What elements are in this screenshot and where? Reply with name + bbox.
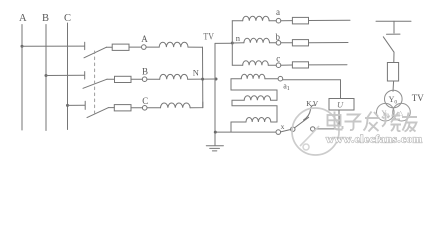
fuse FU-A bbox=[112, 44, 129, 50]
inductor primary winding B bbox=[160, 74, 188, 79]
wire terminal x to selector bbox=[281, 130, 291, 132]
wire A blade to fuse bbox=[107, 46, 113, 48]
node junction C bbox=[66, 104, 69, 107]
switch QS-C fixed contact bbox=[84, 101, 86, 109]
watermark logo circle bbox=[292, 108, 339, 155]
fuse FU-B bbox=[115, 76, 132, 82]
switch gang linkage dashed bbox=[94, 51, 96, 117]
inductor primary winding A bbox=[159, 42, 188, 47]
switch QS-B fixed contact bbox=[84, 72, 86, 79]
svg-text:x: x bbox=[281, 122, 285, 131]
watermark bbox=[292, 108, 422, 155]
inductor auxiliary winding 2 bbox=[244, 96, 270, 101]
wire aux1 to terminal a1 bbox=[265, 78, 278, 80]
svg-text:c: c bbox=[276, 53, 280, 63]
wire coil c to terminal bbox=[268, 64, 276, 66]
node N junction bbox=[201, 78, 204, 81]
terminal a bbox=[276, 18, 281, 23]
switch QS-B blade bbox=[83, 79, 107, 88]
wire aux3 left down to bottom rail bbox=[231, 122, 246, 132]
wire coil C to bus1 bbox=[190, 102, 203, 108]
wire aux1 left wrap bbox=[231, 79, 277, 101]
wire fuse C to plug bbox=[131, 107, 143, 109]
wire terminal a to fuse bbox=[281, 20, 293, 22]
wire bus1 vertical bbox=[202, 47, 204, 107]
wire plug B to coil bbox=[147, 78, 160, 80]
fuse FU-c bbox=[292, 62, 308, 68]
wire terminal b to fuse bbox=[281, 42, 293, 44]
svg-text:n: n bbox=[236, 33, 241, 43]
wire coil b to terminal bbox=[270, 42, 277, 44]
svg-text:www.elecfans.com: www.elecfans.com bbox=[326, 133, 422, 145]
wire row A branch bbox=[22, 45, 85, 47]
selector blade bbox=[295, 117, 309, 127]
watermark char shao bbox=[382, 112, 401, 131]
wire row a out bbox=[309, 19, 351, 21]
inductor secondary winding b bbox=[244, 38, 270, 43]
inductor primary winding C bbox=[161, 103, 191, 108]
wire B blade to fuse bbox=[107, 78, 115, 80]
svg-text:U: U bbox=[337, 100, 344, 110]
svg-text:a: a bbox=[276, 7, 280, 17]
wire aux2 ends bbox=[271, 99, 277, 101]
node junction A bbox=[21, 45, 24, 48]
wire blade to fuse bbox=[393, 52, 395, 62]
wire aux2 left wrap bbox=[232, 100, 277, 122]
wire bottom rail to terminal x bbox=[215, 131, 276, 133]
wire row C branch bbox=[68, 104, 86, 106]
fuse FU-b bbox=[292, 40, 308, 46]
wire fuse B to plug bbox=[131, 78, 142, 80]
watermark char zi bbox=[345, 115, 362, 131]
wire secondary star bus bbox=[231, 21, 233, 65]
wire row B branch bbox=[46, 74, 85, 76]
svg-text:TV: TV bbox=[203, 32, 214, 42]
selector contact right bbox=[311, 127, 315, 131]
wire plug A to coil bbox=[146, 46, 159, 48]
svg-text:B: B bbox=[42, 13, 49, 24]
inductor secondary winding c bbox=[243, 61, 269, 66]
wire row c out bbox=[309, 64, 348, 66]
node junction B bbox=[45, 74, 48, 77]
wire fuse A to plug bbox=[129, 46, 142, 48]
terminal c bbox=[276, 63, 281, 68]
wire terminal c to fuse bbox=[281, 64, 293, 66]
terminal B bbox=[142, 77, 147, 82]
wire coil a to terminal bbox=[269, 20, 276, 22]
inductor auxiliary winding 1 bbox=[241, 74, 265, 79]
inductor auxiliary winding 3 bbox=[246, 117, 271, 122]
selector wiper curve KV bbox=[304, 105, 316, 120]
wire row b left bbox=[232, 42, 244, 44]
watermark char dian bbox=[335, 112, 343, 130]
wire aux3 ends bbox=[271, 121, 277, 123]
wire drop from busbar bbox=[393, 21, 395, 33]
svg-text:b: b bbox=[276, 32, 281, 42]
svg-text:B: B bbox=[142, 66, 148, 76]
wire row a left bbox=[232, 20, 242, 22]
svg-text:N: N bbox=[193, 67, 199, 77]
wire phase C bus vertical bbox=[67, 23, 69, 130]
svg-text:A: A bbox=[141, 34, 148, 44]
transformer TV three-winding circle top bbox=[385, 90, 403, 108]
terminal C bbox=[142, 106, 147, 111]
wire phase A bus vertical bbox=[21, 25, 23, 131]
inductor secondary winding a bbox=[243, 16, 269, 21]
switch QS-C blade bbox=[87, 108, 109, 118]
svg-text:TV: TV bbox=[412, 93, 424, 103]
switch QS-A blade bbox=[84, 47, 107, 58]
watermark char fa bbox=[364, 112, 380, 132]
fuse FU2 bbox=[387, 63, 398, 82]
wire right contact to voltmeter bbox=[315, 110, 339, 129]
wire coil B to N bus bbox=[188, 78, 216, 80]
selector contact left bbox=[291, 127, 295, 131]
terminal x bbox=[276, 130, 281, 135]
terminal a1 bbox=[278, 76, 283, 81]
voltmeter box bbox=[329, 99, 354, 111]
wire phase B bus vertical bbox=[45, 25, 47, 131]
ground bbox=[206, 145, 223, 147]
svg-text:A: A bbox=[19, 13, 27, 24]
node junction at grounding bus bbox=[215, 78, 218, 81]
transformer circle bottom-right bbox=[393, 103, 411, 121]
wire plug C to coil bbox=[147, 107, 161, 109]
transformer circle bottom-left bbox=[377, 103, 395, 121]
terminal b bbox=[276, 41, 281, 46]
wire top right busbar bbox=[376, 20, 411, 22]
wire voltmeter top to a1 line bbox=[283, 80, 341, 99]
switch QS2 fixed contact bbox=[387, 33, 401, 35]
switch QS2 blade bbox=[383, 37, 394, 52]
terminal A bbox=[142, 45, 147, 50]
watermark char you bbox=[402, 113, 417, 132]
wire row c left bbox=[232, 64, 242, 66]
wire C blade to fuse bbox=[109, 107, 115, 109]
svg-text:KV: KV bbox=[306, 99, 319, 108]
wire row b out bbox=[309, 42, 349, 44]
wire bus2 top corner to n bbox=[215, 42, 232, 44]
node junction ground rail bbox=[214, 131, 217, 134]
wire coil A to bus1 bbox=[188, 47, 203, 53]
switch QS-A fixed contact bbox=[84, 42, 86, 49]
svg-text:C: C bbox=[142, 96, 148, 106]
fuse FU-a bbox=[292, 17, 308, 24]
wire grounding bus vertical bbox=[214, 43, 216, 145]
wire fuse to transformer bbox=[392, 81, 395, 91]
node n junction bbox=[231, 42, 234, 45]
fuse FU-C bbox=[114, 105, 131, 111]
